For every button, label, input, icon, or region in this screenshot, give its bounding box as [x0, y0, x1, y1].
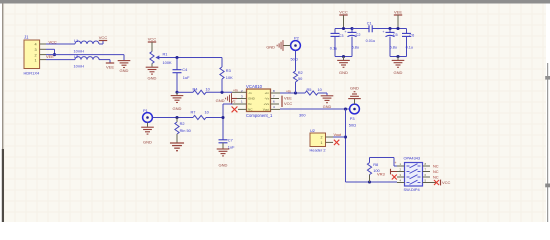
- svg-text:P1: P1: [143, 108, 148, 113]
- wire pin2 to GND drop: [46, 54, 124, 56]
- svg-text:GND: GND: [219, 162, 228, 167]
- svg-text:GND: GND: [339, 70, 348, 75]
- ground (Rin): [176, 134, 178, 143]
- svg-text:R4: R4: [193, 86, 199, 91]
- J1 pin 1: [40, 59, 46, 61]
- svg-text:-In: -In: [248, 91, 252, 95]
- wire pot to GND: [151, 64, 153, 67]
- svg-text:+In: +In: [265, 91, 270, 95]
- resistor R7 10: [193, 115, 206, 119]
- svg-text:C2: C2: [356, 33, 361, 37]
- S1 switch levers: [407, 165, 410, 167]
- resistor R4 10: [193, 90, 206, 94]
- svg-text:NC: NC: [433, 169, 439, 174]
- svg-text:+: +: [344, 30, 346, 34]
- S1 pin 5 to VCC: [423, 182, 437, 184]
- svg-text:NC: NC: [433, 174, 439, 179]
- wire R8 top loop: [369, 158, 371, 163]
- svg-text:GND: GND: [120, 68, 129, 73]
- svg-text:0.1u: 0.1u: [406, 46, 413, 50]
- capacitor C3 0.1u: [334, 29, 336, 34]
- U1 pin -Vs + power port VEE: [271, 98, 280, 100]
- wire to C4: [176, 58, 178, 70]
- junction (223,117.5): [221, 116, 224, 119]
- connector J1: [24, 40, 40, 69]
- J1 pin numbers: [35, 43, 37, 63]
- svg-text:100K: 100K: [163, 60, 172, 65]
- svg-text:50Ω: 50Ω: [291, 56, 298, 61]
- svg-text:6.8u: 6.8u: [390, 46, 397, 50]
- capacitor C2 6.8u: [351, 29, 353, 33]
- junction (54.5,54.6): [53, 53, 56, 56]
- S1 pin numbers: [400, 162, 427, 183]
- U1 pin GND + power port GND: [237, 98, 247, 100]
- svg-text:2: 2: [35, 53, 37, 57]
- svg-text:P2: P2: [294, 35, 299, 40]
- ground (R5): [321, 96, 334, 103]
- svg-text:6.8u: 6.8u: [352, 46, 359, 50]
- svg-text:C5: C5: [393, 33, 398, 37]
- switch S1 SW-DIP4: [405, 163, 423, 187]
- svg-text:+: +: [395, 161, 397, 165]
- wire pin3 jog: [46, 48, 55, 50]
- U1 pin +Vs + power port VCC: [271, 103, 280, 105]
- P3 ground leg (up): [354, 99, 356, 104]
- svg-text:0.1u: 0.1u: [330, 47, 337, 51]
- J1 pin 3: [40, 48, 46, 50]
- wire pin4 to L1: [46, 43, 75, 45]
- wire R5 to GND: [318, 92, 327, 94]
- svg-text:300: 300: [299, 112, 306, 117]
- svg-text:VCC: VCC: [284, 101, 292, 106]
- connector U2 Header 2: [310, 133, 326, 147]
- svg-text:VCC: VCC: [339, 10, 348, 15]
- svg-text:C7: C7: [228, 138, 233, 143]
- svg-text:4: 4: [35, 43, 37, 47]
- svg-text:3: 3: [35, 48, 37, 52]
- resistor R8 100: [369, 175, 371, 182]
- junction (345.5,109): [344, 107, 347, 110]
- wire pot wiper across top: [160, 57, 222, 59]
- junction (177,57.5): [175, 56, 178, 59]
- op-amp U1 VCA810: [247, 89, 271, 112]
- svg-text:GND: GND: [350, 85, 359, 90]
- resistor R5 10: [305, 91, 318, 95]
- svg-text:R3: R3: [226, 68, 231, 73]
- wire R2 to +In node: [295, 82, 297, 93]
- potentiometer R1 100K: [150, 52, 154, 64]
- capacitor C7 1uF: [219, 139, 228, 141]
- ground (C7): [222, 143, 224, 149]
- svg-text:10mH: 10mH: [74, 48, 85, 53]
- svg-text:P3: P3: [350, 116, 355, 121]
- P2 ground leg: [284, 45, 291, 47]
- svg-text:Header 2: Header 2: [310, 148, 326, 153]
- ground (pot): [146, 67, 159, 74]
- svg-text:SW-DIP4: SW-DIP4: [404, 187, 421, 192]
- svg-text:R1: R1: [163, 52, 168, 57]
- wire top to R3: [221, 58, 223, 68]
- power port VCC (J1): [99, 40, 107, 42]
- svg-text:GND: GND: [216, 98, 225, 103]
- connector P1: [143, 113, 153, 123]
- wire L2 to VEE: [99, 59, 110, 61]
- svg-text:10K: 10K: [226, 75, 233, 80]
- svg-text:1: 1: [35, 58, 37, 62]
- svg-text:R5: R5: [307, 87, 312, 92]
- S1 left pins: [397, 165, 405, 167]
- svg-text:L2: L2: [74, 54, 78, 59]
- J1 pin 4: [40, 43, 46, 45]
- wire pin1 to L2: [46, 59, 75, 61]
- ground (C4): [176, 92, 178, 95]
- svg-text:Vc: Vc: [248, 102, 252, 106]
- svg-text:C6: C6: [409, 34, 414, 38]
- Vout rail down: [345, 109, 347, 182]
- no-ERC on U1 NC pin: [238, 108, 247, 110]
- U1 pin Vout wire: [271, 108, 281, 110]
- svg-text:VCC: VCC: [99, 35, 108, 40]
- J1 pin 2: [40, 54, 46, 56]
- ground (VEE caps): [397, 57, 399, 61]
- svg-text:+In: +In: [286, 89, 291, 93]
- svg-text:Vout: Vout: [334, 133, 343, 137]
- power port VEE (J1): [106, 62, 114, 64]
- wire P1 to R7: [152, 117, 193, 119]
- svg-text:GND: GND: [394, 70, 403, 75]
- capacitor C6 0.1u: [406, 29, 408, 34]
- junction (369.5,182): [368, 180, 371, 183]
- svg-text:50Ω: 50Ω: [349, 123, 356, 128]
- svg-text:GND: GND: [248, 97, 256, 101]
- svg-text:Vout: Vout: [263, 107, 269, 111]
- wire node to R4: [177, 91, 193, 93]
- svg-text:R2: R2: [298, 70, 303, 75]
- svg-text:GND: GND: [266, 45, 275, 50]
- svg-text:GND: GND: [173, 106, 182, 111]
- svg-text:+: +: [382, 30, 384, 34]
- wire Vout rail to SW row4: [346, 181, 398, 183]
- capacitor C4 1uF: [173, 69, 182, 71]
- ground (VCC caps): [343, 57, 345, 61]
- svg-text:NC: NC: [248, 107, 253, 111]
- svg-text:OPA4343: OPA4343: [404, 156, 421, 161]
- sheet left border: [2, 4, 3, 150]
- svg-text:VR3: VR3: [377, 171, 386, 176]
- svg-text:R8: R8: [373, 162, 378, 167]
- resistor R3 10K: [220, 67, 224, 79]
- right scrollbar area: [546, 4, 550, 223]
- svg-text:10mH: 10mH: [74, 64, 85, 69]
- svg-text:1uF: 1uF: [183, 75, 190, 80]
- U1 pin -In: [232, 91, 247, 93]
- svg-text:Vc: Vc: [232, 99, 236, 103]
- cap block rails (VEE): [390, 28, 407, 30]
- svg-text:Component_1: Component_1: [246, 113, 273, 118]
- junction (177,92.3): [175, 91, 178, 94]
- U1 pin Vc wire: [233, 103, 247, 105]
- junction (295.5,93): [294, 91, 297, 94]
- no-ERC row3: [392, 175, 397, 180]
- svg-text:NC: NC: [433, 163, 439, 168]
- junction (177,117.5): [175, 116, 178, 119]
- svg-text:VCC: VCC: [148, 37, 157, 42]
- svg-text:VEE: VEE: [106, 65, 114, 70]
- wire R7 to Vc node: [206, 117, 223, 119]
- inductor L2: [75, 57, 99, 60]
- resistor R2 50: [293, 71, 297, 82]
- wire C4 to node: [176, 73, 178, 93]
- S1 right pins NC: [423, 165, 431, 167]
- svg-text:J1: J1: [24, 35, 29, 40]
- svg-text:VCC: VCC: [442, 180, 451, 185]
- U1 pin numbers: [241, 89, 275, 109]
- capacitor C1 0.01u: [352, 28, 369, 30]
- P1 ground leg: [147, 122, 149, 126]
- U2 pin 1 no-ERC: [326, 141, 334, 143]
- svg-text:R2: R2: [180, 121, 185, 126]
- inductor L1: [75, 41, 99, 44]
- connector P3: [350, 104, 360, 114]
- svg-text:GND: GND: [148, 75, 157, 80]
- svg-text:1: 1: [321, 141, 323, 145]
- resistor R2 Rin 50: [176, 118, 178, 123]
- connector P2: [291, 41, 301, 51]
- window top border: [0, 0, 550, 4]
- U2 pin 2 wire to Vout rail: [326, 136, 334, 138]
- svg-text:VEE: VEE: [394, 10, 402, 15]
- svg-text:U2: U2: [310, 128, 315, 133]
- svg-text:GND: GND: [143, 140, 152, 145]
- svg-text:Rin 50: Rin 50: [180, 128, 192, 133]
- svg-text:2: 2: [321, 136, 323, 140]
- svg-text:HDR1X4: HDR1X4: [24, 71, 41, 76]
- capacitor C5 6.8u: [389, 29, 391, 33]
- svg-text:L1: L1: [74, 38, 78, 43]
- svg-text:+Vs: +Vs: [264, 102, 270, 106]
- U1 pin +In wire: [271, 92, 281, 94]
- svg-text:VEE: VEE: [284, 96, 292, 101]
- wire L1 to VCC: [99, 43, 103, 45]
- svg-text:C4: C4: [182, 67, 188, 72]
- svg-text:-Vs: -Vs: [264, 97, 269, 101]
- junction (345.5,137): [344, 135, 347, 138]
- junction (222,92.3): [220, 91, 223, 94]
- svg-text:C3: C3: [339, 34, 344, 38]
- cap block rails (VCC): [335, 28, 352, 30]
- svg-text:R7: R7: [191, 110, 196, 115]
- svg-text:VCA810: VCA810: [246, 84, 263, 89]
- wire P2 down to R2: [295, 50, 297, 71]
- ground (J1 pins 2/3): [118, 61, 131, 68]
- svg-text:C1: C1: [367, 22, 372, 26]
- svg-text:0.01u: 0.01u: [366, 39, 376, 43]
